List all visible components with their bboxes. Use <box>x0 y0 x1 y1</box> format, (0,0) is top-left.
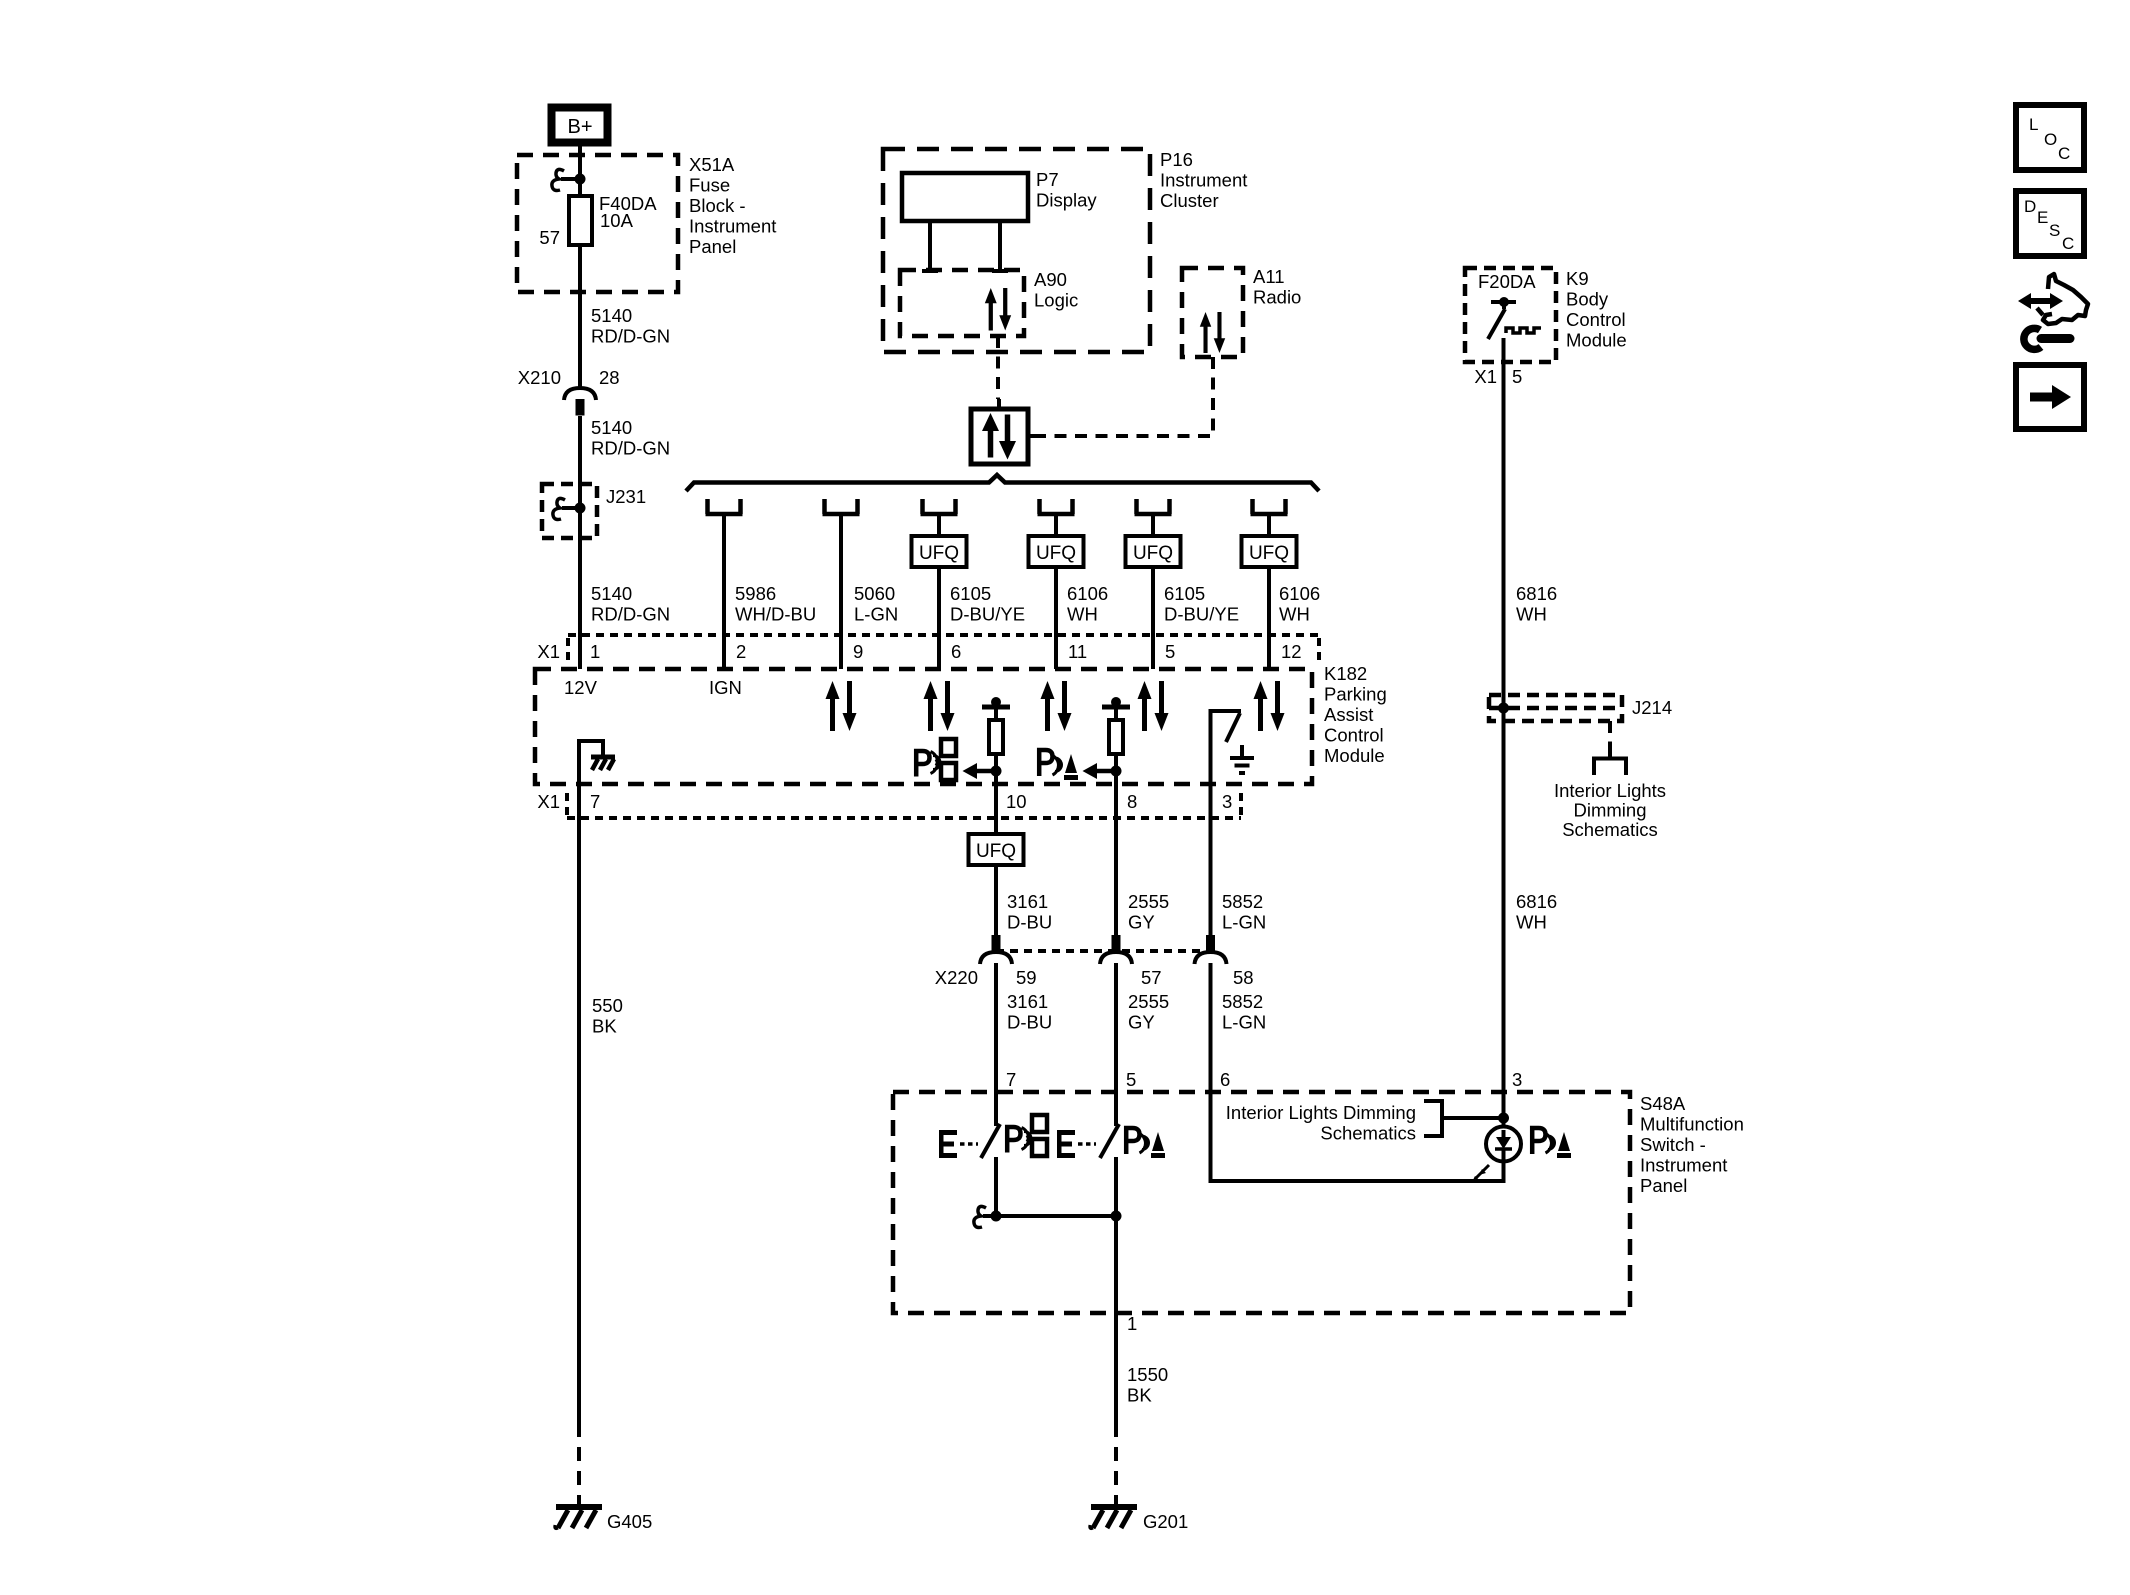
svg-text:IGN: IGN <box>709 677 742 698</box>
illumination LED in S48A <box>1486 1127 1521 1162</box>
svg-text:BK: BK <box>1127 1385 1152 1406</box>
svg-text:X210: X210 <box>518 367 561 388</box>
svg-text:2555: 2555 <box>1128 991 1169 1012</box>
wire display leg right <box>992 221 1008 271</box>
label 3161 D-BU (above X220) <box>1007 891 1052 933</box>
label 6106 WH (pin 11) <box>1067 583 1108 625</box>
wire K182 pin 10 to UFQ <box>994 784 998 834</box>
LED emission arrows <box>1472 1165 1489 1182</box>
bus drop terminal for K182 pin 2 <box>706 499 743 514</box>
svg-text:D-BU/YE: D-BU/YE <box>950 604 1025 625</box>
svg-text:59: 59 <box>1016 967 1037 988</box>
label S48A Multifunction Switch - Instrument Panel <box>1640 1093 1744 1196</box>
bus drop terminal for K182 pin 6 <box>921 499 958 514</box>
splice J231 <box>542 484 646 538</box>
svg-text:57: 57 <box>539 227 560 248</box>
svg-text:10: 10 <box>1006 791 1027 812</box>
svg-text:C: C <box>2062 234 2074 253</box>
svg-text:3161: 3161 <box>1007 891 1048 912</box>
svg-text:12: 12 <box>1281 641 1302 662</box>
svg-text:WH: WH <box>1279 604 1310 625</box>
svg-text:Logic: Logic <box>1034 290 1078 311</box>
svg-text:Multifunction: Multifunction <box>1640 1114 1744 1135</box>
pin numbers X1 top row <box>590 641 1302 662</box>
svg-text:Instrument: Instrument <box>1160 170 1247 191</box>
label 2555 GY (above X220) <box>1128 891 1169 933</box>
wire fuse to X210, circuit 5140 <box>578 245 582 387</box>
wire UFQ to K182 pin 12 <box>1267 567 1271 669</box>
svg-text:Instrument: Instrument <box>1640 1155 1727 1176</box>
fuse clip in X51A <box>552 169 586 190</box>
next page arrow box <box>2016 365 2084 429</box>
fuse F40DA 10A <box>569 196 592 245</box>
wire K9 X1 pin 5 to S48A pin 3, circuit 6816 WH <box>1502 338 1506 1092</box>
svg-text:GY: GY <box>1128 1012 1155 1033</box>
label 5140 RD/D-GN (below X210) <box>591 417 670 459</box>
svg-text:Interior Lights Dimming: Interior Lights Dimming <box>1226 1102 1416 1123</box>
actuator E of switch 1 <box>939 1130 978 1158</box>
multifunction switch S48A dashed box <box>893 1092 1630 1313</box>
svg-text:1: 1 <box>1127 1313 1137 1334</box>
wire X210 to J231 to K182 pin 1, circuit 5140 <box>578 416 582 669</box>
switch 2 (park assist rear) in S48A <box>1100 1092 1119 1216</box>
svg-text:5060: 5060 <box>854 583 895 604</box>
label 5986 WH/D-BU <box>735 583 816 625</box>
wire X220 pin 57 to S48A pin 5 <box>1114 963 1118 1092</box>
svg-text:D-BU: D-BU <box>1007 912 1052 933</box>
svg-text:L-GN: L-GN <box>1222 1012 1266 1033</box>
svg-text:3161: 3161 <box>1007 991 1048 1012</box>
wire X220 pin 59 to S48A pin 7 <box>994 963 998 1092</box>
off-schematic reference bracket (interior lights dimming) <box>1594 751 1626 775</box>
svg-text:RD/D-GN: RD/D-GN <box>591 604 670 625</box>
label X51A Fuse Block - Instrument Panel <box>689 154 776 257</box>
svg-text:Control: Control <box>1324 725 1384 746</box>
svg-text:S48A: S48A <box>1640 1093 1686 1114</box>
svg-text:Parking: Parking <box>1324 684 1387 705</box>
label 6106 WH (pin 12) <box>1279 583 1320 625</box>
connector X220 row <box>935 935 1254 988</box>
wire clip to fuse <box>578 179 582 196</box>
connector X1 of K182 (top row) <box>537 635 1319 662</box>
twisted pair UFQ label box (pin 12) <box>1242 536 1297 567</box>
svg-text:X51A: X51A <box>689 154 735 175</box>
logic unit A90 dashed box <box>900 270 1024 336</box>
svg-text:Interior Lights: Interior Lights <box>1554 780 1666 801</box>
svg-text:Control: Control <box>1566 309 1626 330</box>
svg-text:P16: P16 <box>1160 149 1193 170</box>
wire drop to UFQ (pin 5) <box>1151 514 1155 536</box>
svg-text:B+: B+ <box>567 116 592 138</box>
K9 internal driver switch and coil <box>1488 297 1541 339</box>
wire S48A pin 6 to illumination LED <box>1211 1092 1504 1181</box>
svg-text:1550: 1550 <box>1127 1364 1168 1385</box>
svg-text:BK: BK <box>592 1016 617 1037</box>
svg-text:Cluster: Cluster <box>1160 190 1219 211</box>
actuator E of switch 2 <box>1057 1130 1096 1158</box>
wire drop to K182 pin 2 <box>722 514 726 669</box>
twisted pair UFQ label box (pin 5) <box>1126 536 1181 567</box>
serial data arrows inside K182 below pin 5 <box>1138 681 1169 731</box>
label A90 Logic <box>1034 269 1078 311</box>
svg-text:O: O <box>2044 130 2057 149</box>
label K182 Parking Assist Control Module <box>1324 663 1387 766</box>
twisted pair UFQ label box (pin 11) <box>1029 536 1084 567</box>
label K9 Body Control Module <box>1566 268 1627 351</box>
svg-text:6816: 6816 <box>1516 583 1557 604</box>
svg-text:6105: 6105 <box>950 583 991 604</box>
label 1550 BK <box>1127 1364 1168 1406</box>
svg-text:Module: Module <box>1324 745 1385 766</box>
wire UFQ to X220 pin 59, circuit 3161 <box>994 865 998 935</box>
wire drop to UFQ (pin 12) <box>1267 514 1271 536</box>
svg-text:9: 9 <box>853 641 863 662</box>
svg-text:6: 6 <box>1220 1069 1230 1090</box>
svg-text:2555: 2555 <box>1128 891 1169 912</box>
svg-text:X1: X1 <box>537 791 560 812</box>
svg-text:Body: Body <box>1566 289 1609 310</box>
park assist front icon in S48A <box>1007 1115 1047 1156</box>
svg-text:5: 5 <box>1126 1069 1136 1090</box>
pin numbers above S48A <box>1006 1069 1522 1090</box>
svg-text:550: 550 <box>592 995 623 1016</box>
wire UFQ to K182 pin 11 <box>1054 567 1058 669</box>
instrument cluster P16 dashed box <box>883 149 1150 352</box>
label 5852 L-GN (below X220) <box>1222 991 1266 1033</box>
svg-text:J231: J231 <box>606 486 646 507</box>
svg-text:10A: 10A <box>600 210 634 231</box>
svg-text:L: L <box>2029 115 2038 134</box>
svg-text:WH/D-BU: WH/D-BU <box>735 604 816 625</box>
svg-text:5140: 5140 <box>591 583 632 604</box>
serial data arrows in A90 <box>985 288 1011 331</box>
label 5060 L-GN <box>854 583 898 625</box>
connector X1 of K182 (bottom row) <box>567 793 1241 818</box>
svg-text:A90: A90 <box>1034 269 1067 290</box>
serial data bus brace <box>686 475 1319 491</box>
svg-text:P7: P7 <box>1036 169 1059 190</box>
svg-text:Panel: Panel <box>1640 1175 1687 1196</box>
svg-text:X220: X220 <box>935 967 978 988</box>
wire UFQ to K182 pin 5 <box>1151 567 1155 669</box>
svg-text:Panel: Panel <box>689 236 736 257</box>
svg-text:S: S <box>2049 221 2060 240</box>
wire drop to K182 pin 9 <box>839 514 843 669</box>
svg-text:Module: Module <box>1566 330 1627 351</box>
wire K182 pin 3 to X220 pin 58, circuit 5852 <box>1209 784 1213 935</box>
label F40DA 10A <box>599 193 657 231</box>
internal ground of K182 (pin 7 path) <box>579 741 615 784</box>
svg-text:7: 7 <box>590 791 600 812</box>
dashed lead J214 to reference <box>1608 721 1612 752</box>
svg-text:Dimming: Dimming <box>1574 800 1647 821</box>
svg-text:Instrument: Instrument <box>689 216 776 237</box>
svg-text:Radio: Radio <box>1253 287 1301 308</box>
svg-text:5852: 5852 <box>1222 991 1263 1012</box>
label A11 Radio <box>1253 266 1301 308</box>
svg-text:RD/D-GN: RD/D-GN <box>591 326 670 347</box>
svg-text:Fuse: Fuse <box>689 175 730 196</box>
label 6816 WH (lower) <box>1516 891 1557 933</box>
svg-text:A11: A11 <box>1253 266 1285 287</box>
svg-text:J214: J214 <box>1632 697 1672 718</box>
LOC reference box <box>2016 105 2084 170</box>
labels X1 / 5 of K9 connector <box>1474 366 1522 387</box>
svg-text:C: C <box>2058 144 2070 163</box>
svg-text:3: 3 <box>1222 791 1232 812</box>
label 6816 WH (upper) <box>1516 583 1557 625</box>
splice pack J214 <box>1489 695 1672 721</box>
svg-text:E: E <box>2037 208 2048 227</box>
svg-text:WH: WH <box>1516 604 1547 625</box>
vehicle data / diagnostic icon <box>2018 274 2088 349</box>
serial data arrows inside K182 below pin 12 <box>1254 681 1285 731</box>
label 550 BK <box>592 995 623 1037</box>
svg-text:D-BU/YE: D-BU/YE <box>1164 604 1239 625</box>
serial data arrows in A11 <box>1200 312 1225 353</box>
svg-text:WH: WH <box>1067 604 1098 625</box>
svg-text:L-GN: L-GN <box>854 604 898 625</box>
svg-text:58: 58 <box>1233 967 1254 988</box>
dashed ground lead G405 <box>577 1423 581 1504</box>
wire K182 pin 8 to X220 pin 57, circuit 2555 <box>1114 784 1118 935</box>
serial data arrows inside K182 below pin 6 <box>924 681 955 731</box>
svg-text:6105: 6105 <box>1164 583 1205 604</box>
park assist rear icon inside K182 <box>1039 750 1078 780</box>
svg-text:Switch -: Switch - <box>1640 1134 1706 1155</box>
park assist rear icon beside LED <box>1532 1128 1571 1158</box>
label 5140 RD/D-GN (below J231) <box>591 583 670 625</box>
K182 internal switch to ground (pin 3) <box>1211 711 1255 784</box>
svg-text:1: 1 <box>590 641 600 662</box>
wire S48A pin 3 to LED anode <box>1502 1092 1506 1137</box>
svg-text:6106: 6106 <box>1279 583 1320 604</box>
label 2555 GY (below X220) <box>1128 991 1169 1033</box>
svg-text:Block -: Block - <box>689 195 746 216</box>
label 3161 D-BU (below X220) <box>1007 991 1052 1033</box>
svg-text:X1: X1 <box>1474 366 1497 387</box>
svg-text:2: 2 <box>736 641 746 662</box>
serial data bus node box <box>971 399 1040 464</box>
svg-text:5140: 5140 <box>591 417 632 438</box>
label P7 Display <box>1036 169 1097 211</box>
park assist rear icon in S48A <box>1126 1128 1165 1158</box>
serial data arrows inside K182 below pin 11 <box>1041 681 1072 731</box>
svg-text:K182: K182 <box>1324 663 1367 684</box>
svg-text:5: 5 <box>1165 641 1175 662</box>
fuse block X51A dashed box <box>517 155 678 292</box>
svg-text:Schematics: Schematics <box>1320 1123 1416 1144</box>
DESC reference box <box>2016 191 2084 256</box>
K182 internal sensor driver for pin 10 <box>963 697 1011 784</box>
svg-text:28: 28 <box>599 367 620 388</box>
svg-text:GY: GY <box>1128 912 1155 933</box>
wire UFQ to K182 pin 6 <box>937 567 941 669</box>
power symbol B+ <box>552 108 608 143</box>
svg-text:K9: K9 <box>1566 268 1589 289</box>
label 5852 L-GN (above X220) <box>1222 891 1266 933</box>
wire K182 pin 7 to ground, circuit 550 BK <box>577 784 581 1423</box>
bus drop terminal for K182 pin 9 <box>823 499 860 514</box>
module K182 dashed box <box>535 669 1312 784</box>
park assist front icon inside K182 <box>916 739 956 780</box>
connector X210 pin 28 <box>518 367 620 416</box>
svg-text:D-BU: D-BU <box>1007 1012 1052 1033</box>
wire display leg left <box>922 221 938 271</box>
reference bracket to interior lights dimming schematics <box>1424 1101 1504 1136</box>
label 6105 D-BU/YE (pin 5) <box>1164 583 1239 625</box>
ground G405 <box>555 1507 602 1529</box>
svg-text:5140: 5140 <box>591 305 632 326</box>
switch 1 (park assist front) in S48A <box>981 1092 1000 1216</box>
svg-text:6816: 6816 <box>1516 891 1557 912</box>
svg-text:11: 11 <box>1068 641 1087 662</box>
wire drop to UFQ (pin 6) <box>937 514 941 536</box>
wire drop to UFQ (pin 11) <box>1054 514 1058 536</box>
svg-text:6: 6 <box>951 641 961 662</box>
svg-text:X1: X1 <box>537 641 560 662</box>
junction dot at LED feed <box>1498 1113 1509 1124</box>
bus drop terminal for K182 pin 11 <box>1038 499 1075 514</box>
svg-text:WH: WH <box>1516 912 1547 933</box>
twisted pair UFQ label box (pin 10) <box>969 834 1024 865</box>
label Interior Lights Dimming Schematics (under J214) <box>1554 780 1666 840</box>
svg-text:Schematics: Schematics <box>1562 819 1658 840</box>
svg-text:G405: G405 <box>607 1511 652 1532</box>
svg-text:G201: G201 <box>1143 1511 1188 1532</box>
svg-text:3: 3 <box>1512 1069 1522 1090</box>
svg-text:Display: Display <box>1036 190 1097 211</box>
wire B+ to fuse clip <box>578 146 582 179</box>
svg-text:D: D <box>2024 197 2036 216</box>
K182 internal sensor driver for pin 8 <box>1083 697 1131 784</box>
pin numbers X1 bottom row <box>537 791 1232 812</box>
svg-text:12V: 12V <box>564 677 598 698</box>
svg-text:7: 7 <box>1006 1069 1016 1090</box>
ground G201 <box>1090 1507 1137 1529</box>
body control module K9 dashed box <box>1465 268 1556 362</box>
bus drop terminal for K182 pin 5 <box>1135 499 1172 514</box>
dashed serial data wire A90 to bus node <box>996 336 1000 399</box>
serial data arrows inside K182 below pin 9 <box>826 681 857 731</box>
label P16 Instrument Cluster <box>1160 149 1247 211</box>
svg-text:RD/D-GN: RD/D-GN <box>591 438 670 459</box>
radio A11 dashed box <box>1182 268 1243 357</box>
svg-text:5852: 5852 <box>1222 891 1263 912</box>
svg-text:8: 8 <box>1127 791 1137 812</box>
svg-text:F20DA: F20DA <box>1478 271 1536 292</box>
svg-text:L-GN: L-GN <box>1222 912 1266 933</box>
svg-text:57: 57 <box>1141 967 1162 988</box>
wire X220 pin 58 to S48A pin 6 <box>1209 963 1213 1092</box>
svg-text:Assist: Assist <box>1324 704 1373 725</box>
wire S48A pin 1 to ground, circuit 1550 BK <box>1114 1216 1118 1423</box>
dashed serial data wire A11 to bus node <box>1040 357 1213 436</box>
svg-text:5: 5 <box>1512 366 1522 387</box>
common wire joining switches in S48A <box>974 1206 1122 1227</box>
display P7 <box>902 173 1028 221</box>
svg-text:5986: 5986 <box>735 583 776 604</box>
label 5140 RD/D-GN (above X210) <box>591 305 670 347</box>
label 6105 D-BU/YE (pin 6) <box>950 583 1025 625</box>
label Interior Lights Dimming Schematics (in S48A) <box>1226 1102 1416 1144</box>
bus drop terminal for K182 pin 12 <box>1251 499 1288 514</box>
dashed ground lead G201 <box>1114 1423 1118 1504</box>
svg-text:6106: 6106 <box>1067 583 1108 604</box>
twisted pair UFQ label box (pin 6) <box>912 536 967 567</box>
